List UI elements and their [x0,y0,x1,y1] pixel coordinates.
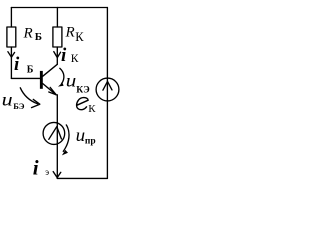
wire emitter lower [56,144,58,178]
wire bottom rail [57,177,107,179]
svg-text:Б: Б [27,65,34,76]
wire base [11,77,39,79]
transistor VT emitter arrowhead [49,87,56,94]
svg-text:u: u [76,125,86,145]
resistor RК [53,27,62,47]
svg-text:пр: пр [85,137,96,147]
source eК circle [96,78,119,101]
transistor VT base bar [40,71,43,89]
voltage arrow uБЭ [20,88,37,104]
resistor RБ [7,27,16,47]
wire RК top [56,8,58,28]
arrowhead uКЭ [58,83,64,87]
svg-text:i: i [61,45,67,66]
svg-text:i: i [33,156,39,180]
svg-text:R: R [65,25,75,41]
svg-text:Б: Б [35,31,42,43]
wire emitter [56,95,58,123]
label eК [77,98,89,110]
voltage arrow uпр [63,125,69,151]
arrow inside VD circle [49,127,62,140]
svg-text:БЭ: БЭ [13,101,25,111]
svg-text:К: К [75,30,84,44]
arrow iБ current [8,52,15,58]
svg-text:u: u [2,89,13,109]
arrow iэ current [53,172,61,178]
wire right branch upper [106,8,108,79]
svg-text:КЭ: КЭ [76,86,89,96]
arrow iК current [54,52,61,58]
svg-text:К: К [71,53,79,65]
wire right branch lower [106,101,108,178]
arrow inside eК circle [103,81,112,90]
voltage arrow uКЭ [60,68,64,84]
wire left branch upper [10,8,12,28]
arrowhead uБЭ [32,99,40,107]
svg-text:u: u [66,71,77,91]
wire top rail [11,7,107,9]
svg-text:R: R [23,25,33,41]
svg-text:К: К [88,103,96,115]
wire through VD circle [56,122,58,144]
svg-text:э: э [45,167,49,177]
transistor VT emitter lead [43,84,56,95]
transistor VT collector lead [43,64,58,76]
wire collector [56,47,58,64]
source VD circle (emitter junction) [43,122,65,144]
wire through eК circle [106,78,108,101]
arrowhead uпр [62,150,68,156]
wire left branch lower [10,47,12,78]
svg-text:i: i [14,54,20,75]
